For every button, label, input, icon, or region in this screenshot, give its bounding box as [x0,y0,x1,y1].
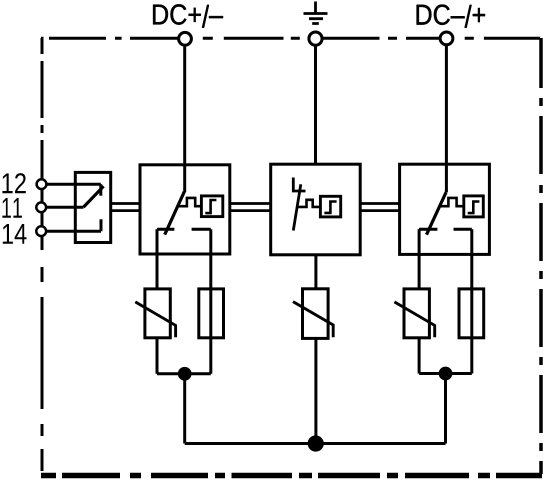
module 3 box [400,164,490,254]
wire terminal 11 to blade pivot [46,206,83,209]
fuse 3 body [459,289,484,338]
wire DC- terminal to module 3 disconnector [445,45,448,192]
wire module 2 to varistor 2 [314,255,317,289]
wire varistor 3 to node [418,338,421,374]
node right pair [440,368,451,379]
module 1 box [140,165,230,254]
wire module 1 to varistor [156,229,159,289]
mechanical link module 2 to module 3 (double line) [360,204,399,211]
label 11 [2,198,22,218]
module 1 contact bar left [157,228,174,231]
module 3 trip indicator box [464,196,484,217]
wire module 3 to varistor 3 [418,229,421,289]
varistor 1 diagonal [135,302,175,337]
module 3 contact bar left [419,228,437,231]
ground symbol [304,2,328,24]
terminal circle 14 [36,226,46,236]
terminal circle 11 [36,202,46,212]
wire module 3 through fuse 3 [470,229,473,373]
right pair bottom wire [419,372,472,375]
module 2 spark gap electrode [293,178,305,192]
varistor 3 body [404,289,429,338]
enclosure border bottom (dash-dot, thick) [41,473,542,479]
wire varistor 1 to node [156,338,159,374]
mechanical link module 1 to module 2 (double line) [230,204,271,211]
varistor 1 body [145,289,170,338]
varistor 3 diagonal [394,302,434,337]
enclosure border top (dash-dot) [41,37,540,40]
module 1 thermal link notch [178,198,202,206]
enclosure border right (dash-dot) [539,38,543,474]
module 2 spark gap slant [293,184,301,230]
mechanical link relay to module 1 (double line) [111,204,140,211]
module 1 contact bar right [192,228,211,231]
module 3 trip indicator step [468,202,480,214]
label 14 [3,224,27,244]
label DC-/+ [417,5,485,28]
relay blade with arrow tip [84,186,104,207]
terminal DC+/- [179,32,192,45]
module 1 trip indicator step [205,200,216,213]
module 2 trip indicator box [320,196,340,217]
module 3 disconnector blade [427,192,447,235]
fuse 1 body [199,289,224,338]
varistor 2 diagonal [293,302,333,338]
module 3 contact bar right [454,228,472,231]
wire DC+ terminal to module 1 disconnector [183,45,186,192]
contact 14 stub [100,219,103,231]
module 2 trip indicator step [324,202,336,213]
wire module 1 through fuse [209,229,212,374]
terminal circle 12 [37,179,47,189]
left pair bottom wire [157,372,211,375]
wire varistor 2 to center node [314,338,317,443]
varistor 2 body [303,289,329,339]
center bottom node [309,437,322,450]
contact 12 stub [99,184,102,196]
module 3 thermal link notch [439,198,463,206]
terminal DC-/+ [440,32,453,45]
wire left node down [183,374,186,444]
enclosure border left (dash-dot) [41,38,44,471]
module 1 trip indicator box [201,196,222,217]
module 1 disconnector blade [165,192,185,235]
wire right node down [444,374,447,444]
label DC+/- [153,4,223,27]
node left pair [179,368,190,379]
wire terminal 14 to contact [46,230,101,233]
terminal PE ground [309,32,322,45]
label 12 [2,173,25,193]
module 2 thermal link notch [296,200,320,207]
wire terminal 12 to contact [46,183,101,186]
wire PE terminal to module 2 [314,45,317,164]
remote signalling changeover contact box [75,172,110,242]
module 2 box [271,164,361,255]
bottom bus wire [185,442,446,445]
